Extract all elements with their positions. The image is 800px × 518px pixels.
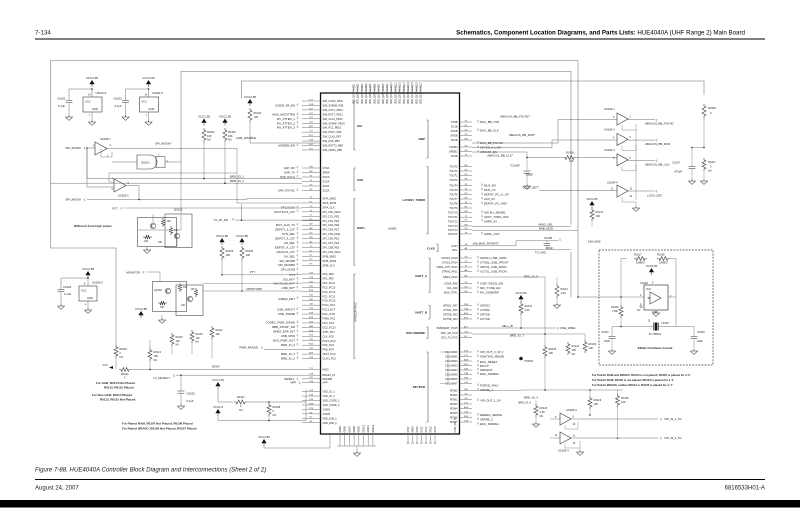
svg-text:W19: W19 bbox=[309, 403, 314, 405]
wire U0105-2 top input bbox=[109, 173, 237, 182]
svg-text:32.768kHz: 32.768kHz bbox=[649, 332, 662, 336]
svg-text:SPI_SCKB: SPI_SCKB bbox=[281, 268, 295, 272]
svg-text:10K: 10K bbox=[196, 337, 201, 340]
svg-text:R0105: R0105 bbox=[226, 249, 234, 253]
svg-text:SCK2: SCK2 bbox=[417, 426, 419, 433]
svg-text:FORCE_FAIL*: FORCE_FAIL* bbox=[480, 384, 500, 388]
svg-text:VDD_QV3: VDD_QV3 bbox=[362, 93, 364, 104]
capacitor C0101 bbox=[611, 327, 613, 337]
resistor R0102 bbox=[222, 119, 227, 123]
svg-text:((: (( bbox=[297, 324, 299, 328]
resistor R0118 bbox=[657, 257, 670, 261]
wire U0104-4 output bbox=[628, 190, 655, 192]
svg-text:DCD4_PA9: DCD4_PA9 bbox=[445, 282, 459, 286]
op-amp U0105-2 bbox=[114, 179, 126, 192]
resistor R0108 bbox=[267, 403, 271, 416]
svg-text:168_MHZ: 168_MHZ bbox=[588, 240, 601, 244]
wire SPI_MISOA net bbox=[87, 199, 247, 201]
capacitor C0104 bbox=[60, 278, 62, 289]
ground R0127 bbox=[700, 181, 707, 184]
svg-text:SPIA_MISO: SPIA_MISO bbox=[323, 197, 337, 201]
wire ABACUS_BB_CLK* net bbox=[472, 151, 527, 153]
svg-text:((: (( bbox=[481, 187, 483, 191]
svg-text:SIM_RSTT_PB12: SIM_RSTT_PB12 bbox=[323, 112, 344, 116]
svg-text:10K: 10K bbox=[226, 253, 231, 257]
svg-text:MONITORP: MONITORP bbox=[246, 287, 262, 291]
svg-text:UCTSB_PA4: UCTSB_PA4 bbox=[443, 317, 458, 321]
svg-text:GND11: GND11 bbox=[368, 424, 370, 432]
svg-text:10K: 10K bbox=[167, 220, 172, 223]
svg-text:STDB: STDB bbox=[451, 120, 458, 124]
wire osc feedback left bbox=[621, 259, 644, 298]
svg-text:TOUT8: TOUT8 bbox=[449, 202, 458, 206]
wire U0105-3 output VIP_IN_1 bbox=[571, 418, 658, 420]
svg-text:SIM_RSTT2_PB8: SIM_RSTT2_PB8 bbox=[323, 144, 344, 148]
svg-text:GND: GND bbox=[149, 107, 155, 111]
svg-text:((: (( bbox=[477, 349, 479, 353]
svg-text:COLUMN6: COLUMN6 bbox=[445, 377, 458, 381]
svg-text:BUS_PWR_OUT: BUS_PWR_OUT bbox=[273, 339, 295, 343]
svg-text:PC13_DC7: PC13_DC7 bbox=[323, 308, 336, 312]
svg-text:CABLE_DET: CABLE_DET bbox=[278, 297, 295, 301]
resistor R0104 bbox=[190, 330, 194, 343]
svg-text:R0117: R0117 bbox=[634, 253, 642, 257]
bottom black bar bbox=[0, 500, 800, 508]
svg-text:NAUTILUS_INT*: NAUTILUS_INT* bbox=[273, 282, 296, 286]
svg-text:PC7: PC7 bbox=[112, 206, 118, 210]
resistor R0101 bbox=[201, 119, 206, 123]
svg-text:((: (( bbox=[477, 140, 479, 144]
svg-text:BRD_IO_4: BRD_IO_4 bbox=[524, 396, 538, 400]
IC pin RESET row bbox=[302, 378, 321, 380]
svg-text:R0107: R0107 bbox=[237, 395, 245, 399]
svg-text:VDD_CORE_1: VDD_CORE_1 bbox=[323, 399, 341, 403]
svg-text:SPI_CS8_PE3: SPI_CS8_PE3 bbox=[323, 245, 340, 249]
svg-text:TOUT2: TOUT2 bbox=[449, 174, 458, 178]
svg-text:VCC: VCC bbox=[103, 363, 109, 367]
wire keypad internal bbox=[440, 352, 448, 384]
wire SPI nets to IC bbox=[237, 149, 302, 204]
svg-text:10K: 10K bbox=[246, 253, 251, 257]
svg-text:TP0002: TP0002 bbox=[524, 359, 534, 363]
svg-text:VDD_QV4: VDD_QV4 bbox=[366, 93, 368, 104]
svg-text:VSIM1: VSIM1 bbox=[323, 407, 331, 411]
svg-text:VCC2.85: VCC2.85 bbox=[219, 114, 232, 118]
svg-text:((: (( bbox=[477, 264, 479, 268]
svg-text:((: (( bbox=[477, 412, 479, 416]
svg-text:BRD_IO_3: BRD_IO_3 bbox=[281, 352, 295, 356]
svg-text:SRC2: SRC2 bbox=[430, 426, 432, 433]
svg-text:((: (( bbox=[297, 240, 299, 244]
IC group SAP bracket bbox=[354, 168, 356, 191]
svg-text:VCCQ10: VCCQ10 bbox=[391, 82, 393, 92]
transistor circuit Q0102 bbox=[153, 282, 187, 312]
svg-text:((: (( bbox=[297, 276, 299, 280]
wire MONITORP bbox=[203, 290, 302, 292]
svg-text:10K: 10K bbox=[181, 304, 186, 307]
svg-text:VCC2.85: VCC2.85 bbox=[86, 76, 99, 80]
svg-text:((: (( bbox=[481, 201, 483, 205]
svg-text:TOUT14: TOUT14 bbox=[448, 228, 458, 232]
svg-text:SIM_SVENB_PB8: SIM_SVENB_PB8 bbox=[323, 103, 344, 107]
svg-text:((: (( bbox=[477, 285, 479, 289]
svg-text:RX_ATTEN_2: RX_ATTEN_2 bbox=[277, 121, 295, 125]
svg-text:((: (( bbox=[477, 268, 479, 272]
svg-text:W17: W17 bbox=[309, 144, 314, 146]
wire U0105-4 input bbox=[550, 437, 560, 439]
svg-text:7-134: 7-134 bbox=[35, 30, 51, 37]
svg-text:VCC: VCC bbox=[646, 288, 651, 291]
svg-text:For Patriot RAM and BRAVO, R01: For Patriot RAM and BRAVO, R0124 is not … bbox=[592, 373, 691, 377]
svg-text:BBP: BBP bbox=[419, 137, 425, 141]
svg-text:ABACUS_BB_FSYNC*: ABACUS_BB_FSYNC* bbox=[500, 115, 531, 119]
svg-text:((: (( bbox=[143, 270, 145, 274]
svg-text:((: (( bbox=[297, 342, 299, 346]
svg-text:((: (( bbox=[297, 165, 299, 169]
svg-text:((: (( bbox=[477, 302, 479, 306]
svg-text:((: (( bbox=[557, 326, 559, 330]
svg-text:GND5: GND5 bbox=[340, 425, 342, 432]
svg-text:R0102: R0102 bbox=[228, 130, 236, 134]
svg-text:U0104-2: U0104-2 bbox=[604, 127, 615, 131]
svg-text:((: (( bbox=[477, 255, 479, 259]
svg-text:RESDIR: RESDIR bbox=[323, 377, 333, 381]
svg-text:USB_TXENB: USB_TXENB bbox=[278, 312, 295, 316]
svg-text:((: (( bbox=[297, 337, 299, 341]
power block U0105-5 bbox=[85, 271, 90, 275]
svg-text:VCCQ13: VCCQ13 bbox=[404, 82, 406, 92]
svg-text:VCC2.85: VCC2.85 bbox=[142, 76, 155, 80]
svg-text:VCC2.85: VCC2.85 bbox=[586, 197, 598, 201]
svg-text:((: (( bbox=[297, 351, 299, 355]
svg-text:MOD: MOD bbox=[323, 368, 329, 372]
svg-text:EMERG_SENSE: EMERG_SENSE bbox=[480, 413, 502, 417]
svg-text:UTXD2: UTXD2 bbox=[480, 308, 490, 312]
svg-text:((: (( bbox=[297, 111, 299, 115]
svg-text:GA_SEL: GA_SEL bbox=[284, 254, 296, 258]
svg-text:U0001: U0001 bbox=[388, 227, 397, 231]
svg-text:10K: 10K bbox=[176, 340, 181, 343]
svg-text:((: (( bbox=[477, 311, 479, 315]
svg-text:PWR_RANGE: PWR_RANGE bbox=[239, 346, 258, 350]
resistor R0113 bbox=[148, 348, 152, 361]
svg-text:SYN_SEL: SYN_SEL bbox=[282, 232, 295, 236]
svg-text:BRD_IO_6: BRD_IO_6 bbox=[281, 343, 295, 347]
ground C0107 bbox=[688, 181, 695, 184]
svg-text:NF3_PE8: NF3_PE8 bbox=[323, 272, 335, 276]
svg-text:VCCQ6: VCCQ6 bbox=[374, 83, 376, 92]
resistor R0127 bbox=[702, 158, 706, 171]
capacitor C0105 bbox=[180, 375, 182, 390]
svg-text:RA_JSSBSRP: RA_JSSBSRP bbox=[480, 291, 499, 295]
svg-text:((: (( bbox=[477, 307, 479, 311]
svg-text:10K: 10K bbox=[549, 351, 554, 355]
svg-text:NU: NU bbox=[196, 341, 200, 344]
svg-text:GND10: GND10 bbox=[363, 424, 365, 432]
svg-text:10K: 10K bbox=[572, 348, 577, 352]
svg-text:SC2B: SC2B bbox=[451, 138, 458, 142]
svg-text:R0123: R0123 bbox=[540, 406, 548, 410]
ground C0109 bbox=[523, 186, 530, 189]
svg-text:((: (( bbox=[477, 149, 479, 153]
wire U0105-2 output bbox=[126, 186, 139, 200]
svg-text:((: (( bbox=[477, 371, 479, 375]
wire SPI_MOSIA* net bbox=[107, 148, 237, 150]
testpoint TP0002 bbox=[519, 357, 523, 361]
svg-text:URXD1_PA15: URXD1_PA15 bbox=[441, 256, 458, 260]
svg-text:GND: GND bbox=[92, 107, 98, 111]
svg-text:VDD_QV1: VDD_QV1 bbox=[353, 93, 355, 104]
svg-text:10K: 10K bbox=[160, 306, 165, 309]
svg-text:TOUT15: TOUT15 bbox=[448, 232, 458, 236]
svg-text:((: (( bbox=[232, 217, 234, 221]
svg-text:ABACUS_BB_CLK*: ABACUS_BB_CLK* bbox=[487, 153, 514, 157]
page header rule bbox=[35, 38, 765, 40]
svg-text:NU: NU bbox=[708, 169, 712, 173]
svg-text:((: (( bbox=[297, 169, 299, 173]
ground U0103-5 bbox=[88, 122, 95, 125]
svg-text:((: (( bbox=[297, 209, 299, 213]
svg-text:TOUT6: TOUT6 bbox=[449, 193, 458, 197]
svg-text:U0104-4: U0104-4 bbox=[607, 181, 618, 185]
svg-text:COLUMN3: COLUMN3 bbox=[445, 364, 458, 368]
svg-text:VDD_QV6: VDD_QV6 bbox=[374, 93, 376, 104]
wire crystal left bbox=[621, 326, 648, 328]
svg-text:W16: W16 bbox=[309, 344, 314, 346]
svg-text:SCKB2: SCKB2 bbox=[449, 145, 458, 149]
svg-text:Schematics, Component Location: Schematics, Component Location Diagrams,… bbox=[456, 30, 745, 37]
svg-text:SPI_MISOA: SPI_MISOA bbox=[65, 198, 81, 202]
wire VDD feed bbox=[247, 401, 306, 403]
svg-text:RA5_DC4: RA5_DC4 bbox=[323, 343, 335, 347]
svg-text:PC5_PC13: PC5_PC13 bbox=[323, 285, 336, 289]
svg-text:U0105-5: U0105-5 bbox=[92, 281, 103, 285]
svg-text:SPI_CS1_PE5: SPI_CS1_PE5 bbox=[323, 214, 340, 218]
IC group BBP bracket bbox=[427, 120, 429, 158]
svg-text:((: (( bbox=[121, 206, 123, 210]
svg-text:ENC_SPARE1: ENC_SPARE1 bbox=[480, 422, 499, 426]
svg-text:100: 100 bbox=[569, 159, 574, 163]
svg-text:SPI_MOSIA*: SPI_MOSIA* bbox=[155, 142, 173, 146]
IC group UART_A bracket bbox=[429, 258, 431, 293]
svg-text:ROW2: ROW2 bbox=[450, 398, 458, 402]
svg-text:For HAB: R0114 Not Placed: For HAB: R0114 Not Placed bbox=[96, 381, 135, 385]
svg-text:NU: NU bbox=[154, 358, 158, 362]
svg-text:VCCQ2: VCCQ2 bbox=[358, 83, 360, 92]
svg-text:For Patriot RAM, R0125 is not: For Patriot RAM, R0125 is not placed, R0… bbox=[592, 378, 674, 382]
svg-text:Q0101: Q0101 bbox=[174, 208, 183, 212]
svg-text:W18: W18 bbox=[309, 330, 314, 332]
svg-text:SC1B: SC1B bbox=[451, 125, 458, 129]
ground C0102 bbox=[65, 117, 72, 120]
svg-text:R0104: R0104 bbox=[196, 333, 204, 336]
svg-text:TOUT0: TOUT0 bbox=[449, 165, 458, 169]
op-amp U0105-4 bbox=[560, 432, 571, 444]
wire Q0101 nets bbox=[152, 214, 154, 223]
svg-text:VIP_OUT_2_3V V: VIP_OUT_2_3V V bbox=[480, 350, 504, 354]
svg-text:LAYER1_TIMER: LAYER1_TIMER bbox=[402, 198, 425, 202]
wire U0105-3 input bbox=[550, 418, 560, 420]
svg-text:Different from high power: Different from high power bbox=[74, 224, 113, 228]
svg-text:U0104-5: U0104-5 bbox=[152, 91, 163, 95]
svg-text:C0107: C0107 bbox=[672, 161, 680, 165]
svg-text:VCC: VCC bbox=[81, 289, 87, 293]
svg-text:((: (( bbox=[297, 307, 299, 311]
svg-text:((: (( bbox=[559, 238, 561, 242]
svg-text:CLKS: CLKS bbox=[427, 247, 435, 251]
wire MOD net bbox=[131, 369, 302, 371]
svg-text:R0113, R0115 Placed: R0113, R0115 Placed bbox=[104, 386, 134, 390]
IC group BBP pins bbox=[460, 121, 473, 123]
svg-text:COLUMN1: COLUMN1 bbox=[445, 355, 458, 359]
svg-text:GND8: GND8 bbox=[354, 425, 356, 432]
svg-text:VCCQ16: VCCQ16 bbox=[416, 82, 418, 92]
svg-text:ABACUS_BB_RXD: ABACUS_BB_RXD bbox=[645, 142, 670, 146]
svg-text:UHRF_OUT: UHRF_OUT bbox=[484, 232, 500, 236]
wire U0104-3 output bbox=[628, 160, 655, 162]
svg-text:TOUT9: TOUT9 bbox=[449, 206, 458, 210]
IC group LAYER1_TIMER bracket bbox=[427, 167, 429, 234]
svg-text:((: (( bbox=[477, 421, 479, 425]
svg-text:VDD_EIM_2: VDD_EIM_2 bbox=[323, 421, 338, 425]
svg-text:10K: 10K bbox=[254, 115, 259, 119]
wire BRD_IO_1 bbox=[87, 148, 302, 179]
svg-text:AUX_5V: AUX_5V bbox=[484, 197, 495, 201]
svg-text:((: (( bbox=[297, 222, 299, 226]
IC pin VPP bbox=[302, 382, 321, 384]
svg-text:PAD_PC4: PAD_PC4 bbox=[323, 348, 335, 352]
wire PTT net bbox=[222, 274, 302, 276]
wire PWR_RANGE bbox=[264, 349, 302, 351]
svg-text:NC: NC bbox=[637, 309, 641, 312]
svg-text:NAUTILUS_CS*: NAUTILUS_CS* bbox=[274, 210, 296, 214]
ground Q0101 bbox=[146, 247, 148, 251]
svg-text:U0105-3: U0105-3 bbox=[566, 408, 577, 412]
svg-text:TOUT11: TOUT11 bbox=[448, 215, 458, 219]
svg-text:VIP_IN_2_5V: VIP_IN_2_5V bbox=[664, 436, 682, 440]
svg-text:((: (( bbox=[297, 249, 299, 253]
gate U0105-1 buffer bbox=[137, 155, 157, 169]
svg-text:SIM_CVTX_PB16: SIM_CVTX_PB16 bbox=[323, 108, 344, 112]
wire keypad row nets bbox=[472, 389, 521, 392]
svg-text:C1B: C1B bbox=[464, 373, 469, 375]
svg-text:URXD2: URXD2 bbox=[480, 304, 490, 308]
svg-text:((: (( bbox=[481, 210, 483, 214]
wire top net 1 bbox=[51, 61, 579, 231]
svg-text:10K: 10K bbox=[154, 354, 159, 358]
ground U0105-5 bbox=[84, 310, 91, 313]
svg-text:BRD_IO_4: BRD_IO_4 bbox=[518, 401, 531, 405]
svg-text:U0102: U0102 bbox=[640, 281, 648, 285]
svg-text:VCCQ9: VCCQ9 bbox=[387, 83, 389, 92]
svg-text:((: (( bbox=[297, 125, 299, 129]
wire U0104-2 output bbox=[628, 139, 655, 141]
svg-text:URTSD: URTSD bbox=[480, 313, 490, 317]
capacitor C0103 bbox=[125, 89, 127, 100]
svg-text:R0115: R0115 bbox=[120, 347, 128, 351]
svg-text:U0104-1: U0104-1 bbox=[604, 107, 615, 111]
svg-text:VCC2.85: VCC2.85 bbox=[515, 291, 527, 295]
resistor R0107 bbox=[234, 400, 247, 404]
svg-text:For Patriot RAM, R0107 Not Pla: For Patriot RAM, R0107 Not Placed, R0106… bbox=[122, 422, 193, 426]
svg-text:TOUT5: TOUT5 bbox=[449, 188, 458, 192]
IC group GPIO bracket bbox=[354, 274, 356, 359]
svg-text:GND6: GND6 bbox=[345, 425, 347, 432]
svg-text:SPI_MOSIB2: SPI_MOSIB2 bbox=[278, 263, 296, 267]
IC group DSP1 bracket bbox=[354, 199, 356, 266]
svg-text:((: (( bbox=[297, 311, 299, 315]
wire crystal right bbox=[676, 297, 694, 336]
svg-text:AUDIO_PA_EN: AUDIO_PA_EN bbox=[275, 104, 295, 108]
svg-text:Q0102: Q0102 bbox=[154, 288, 162, 292]
svg-text:33kHz Oscillator Circuit: 33kHz Oscillator Circuit bbox=[638, 346, 673, 350]
IC group CLKS pins bbox=[460, 245, 463, 247]
svg-text:R0130: R0130 bbox=[621, 396, 629, 400]
svg-text:SRD2: SRD2 bbox=[412, 426, 414, 433]
power VCC1.8 bbox=[215, 409, 220, 413]
svg-text:VCCQ8: VCCQ8 bbox=[383, 83, 385, 92]
wire osc mid bbox=[647, 258, 654, 260]
svg-text:((: (( bbox=[477, 382, 479, 386]
svg-text:ABACUS_BB_FSYNC: ABACUS_BB_FSYNC bbox=[645, 122, 674, 126]
wire Q0102 out bbox=[203, 283, 302, 285]
svg-text:RESET_IN: RESET_IN bbox=[323, 373, 336, 377]
wire bottom nets bbox=[521, 389, 623, 391]
svg-text:DSRA_PA10: DSRA_PA10 bbox=[443, 275, 458, 279]
svg-text:EEPOT_PC_IND*: EEPOT_PC_IND* bbox=[484, 202, 508, 206]
svg-text:ROW4: ROW4 bbox=[450, 407, 458, 411]
wire clk junction bbox=[570, 71, 572, 73]
svg-text:SPIB_MOSI: SPIB_MOSI bbox=[323, 259, 337, 263]
svg-text:DC3_PC13: DC3_PC13 bbox=[323, 325, 336, 329]
wire clk to opamp bbox=[576, 157, 617, 159]
svg-text:GND7: GND7 bbox=[349, 425, 351, 432]
power block U0104-5 bbox=[146, 80, 151, 84]
svg-text:SPI_CS6_PE1: SPI_CS6_PE1 bbox=[323, 237, 340, 241]
svg-text:SPARE_2: SPARE_2 bbox=[480, 418, 493, 422]
svg-text:R0114: R0114 bbox=[121, 372, 129, 376]
svg-text:((: (( bbox=[297, 235, 299, 239]
svg-text:VDD_QV9: VDD_QV9 bbox=[387, 93, 389, 104]
power VCC1.55 bbox=[215, 382, 220, 386]
svg-text:SC52: SC52 bbox=[421, 426, 423, 432]
svg-text:VCCQ7: VCCQ7 bbox=[379, 83, 381, 92]
op-amp U0105-1 bbox=[95, 142, 107, 155]
wire op-amp U0105-1 input bbox=[87, 147, 95, 149]
svg-text:SIM_SVENF_PB14: SIM_SVENF_PB14 bbox=[323, 121, 346, 125]
svg-text:SRDB2: SRDB2 bbox=[449, 150, 458, 154]
svg-text:For Patriot BRAVO, neither R01: For Patriot BRAVO, neither R0124 or R012… bbox=[592, 383, 673, 387]
svg-text:SAP: SAP bbox=[357, 178, 363, 182]
svg-text:AD_SEL: AD_SEL bbox=[284, 241, 295, 245]
wire left long vertical bbox=[51, 61, 117, 283]
svg-text:SPIB_MISO: SPIB_MISO bbox=[323, 254, 337, 258]
svg-text:((: (( bbox=[297, 227, 299, 231]
svg-text:SPI_CS5_PE11: SPI_CS5_PE11 bbox=[323, 232, 342, 236]
svg-text:10K: 10K bbox=[228, 134, 233, 138]
ground under IC bbox=[356, 446, 358, 453]
svg-text:URTS1_USB_XRXD: URTS1_USB_XRXD bbox=[480, 265, 507, 269]
wire TO_KHZ net bbox=[462, 250, 571, 252]
svg-text:ONE_WIRE: ONE_WIRE bbox=[560, 326, 575, 330]
svg-text:CBRA_INT*_PA13: CBRA_INT*_PA13 bbox=[436, 265, 458, 269]
resistor R0108 series bbox=[563, 156, 576, 160]
svg-text:VCC2.85: VCC2.85 bbox=[236, 234, 249, 238]
svg-text:MILL_ID: MILL_ID bbox=[502, 324, 513, 328]
svg-text:((: (( bbox=[297, 231, 299, 235]
svg-text:((: (( bbox=[297, 355, 299, 359]
svg-text:ROW5: ROW5 bbox=[450, 411, 458, 415]
